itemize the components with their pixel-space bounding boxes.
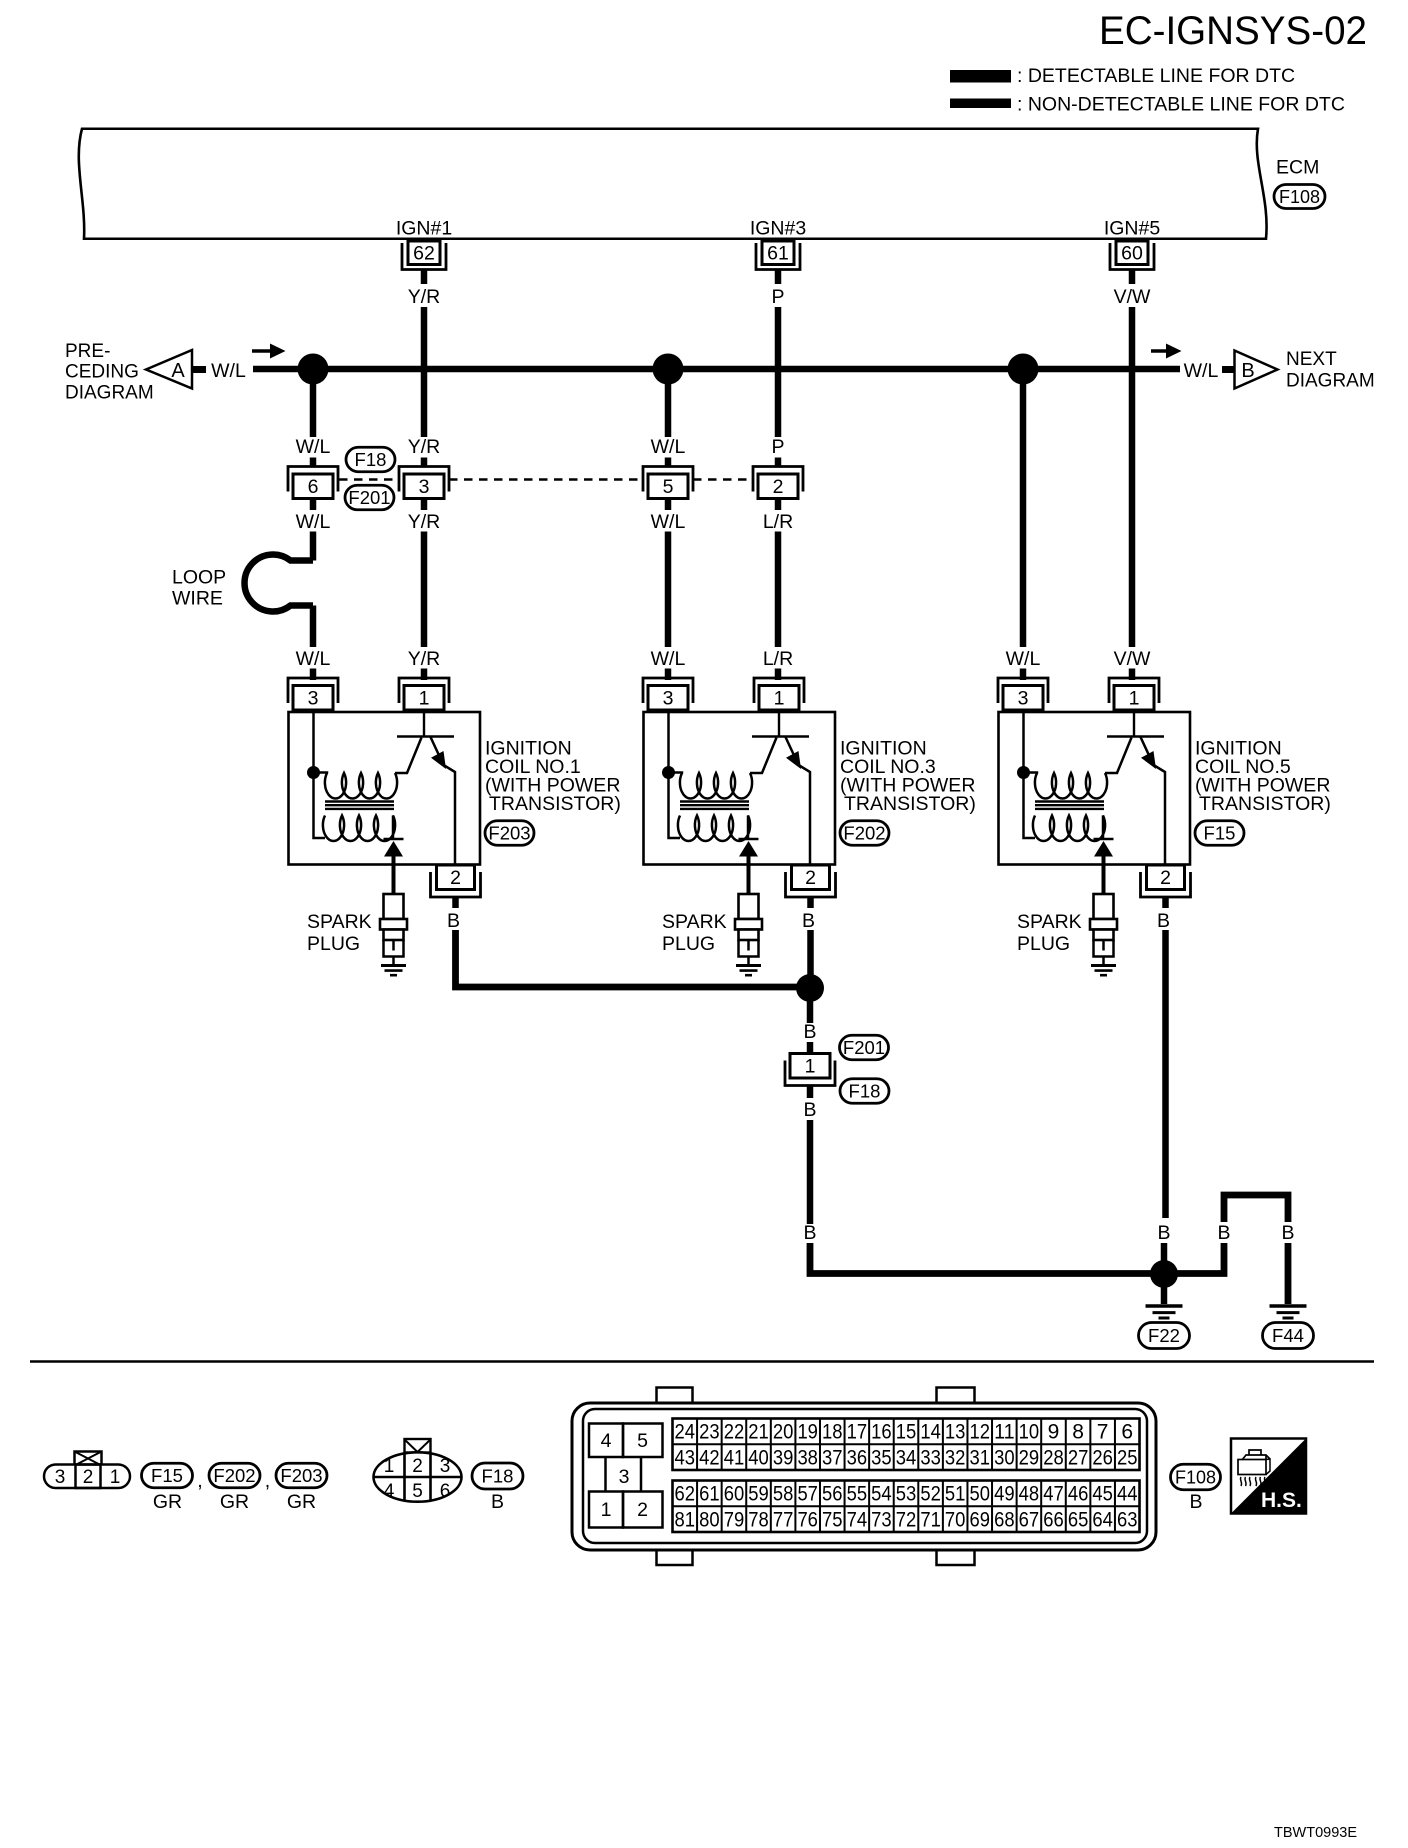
svg-text:1: 1 [419,688,430,710]
svg-text:72: 72 [896,1508,917,1531]
svg-text:PRE-: PRE- [65,341,110,362]
svg-text:PLUG: PLUG [1017,933,1070,955]
svg-text:6: 6 [308,476,319,498]
wire [775,669,782,681]
svg-text:46: 46 [1068,1483,1089,1506]
svg-text:W/L: W/L [211,360,246,382]
svg-text:31: 31 [970,1446,991,1469]
connector pin 5 (F18/F201) [643,467,693,499]
svg-text:47: 47 [1043,1483,1064,1506]
transistor Q1 emitter with arrow [431,737,456,865]
svg-text:57: 57 [797,1483,818,1506]
wire [1020,669,1027,681]
svg-text:64: 64 [1092,1508,1113,1531]
svg-text:LOOP: LOOP [172,567,226,589]
coil 5 secondary winding [1033,816,1105,842]
svg-text:58: 58 [773,1483,794,1506]
wire B coil3 down [807,930,814,988]
svg-text:F201: F201 [843,1037,885,1058]
connector label F18 [346,447,395,472]
svg-text:B: B [491,1491,504,1513]
svg-text:B: B [1217,1222,1230,1244]
svg-text:L/R: L/R [763,648,793,670]
wire stub pin 61 [775,270,782,285]
wire [310,669,317,681]
wire Y/R lower [421,532,428,648]
svg-text:GR: GR [220,1491,249,1513]
connector label F203 [485,821,534,846]
ECM connector left pin block [589,1424,663,1528]
transistor Q1 base [397,712,454,737]
H.S. badge [1231,1439,1306,1514]
svg-text:56: 56 [822,1483,843,1506]
connector label F15 [142,1463,193,1488]
svg-text:2: 2 [1160,867,1171,889]
transistor Q5 base [1107,712,1164,737]
svg-text:19: 19 [797,1421,818,1444]
svg-text:42: 42 [699,1446,720,1469]
svg-text:H.S.: H.S. [1261,1489,1302,1512]
connector label F15 [1195,821,1244,846]
spark plug (coil 3) [735,894,762,965]
svg-text:GR: GR [153,1491,182,1513]
svg-text:Y/R: Y/R [408,436,441,458]
svg-text:75: 75 [822,1508,843,1531]
svg-text:F15: F15 [1204,823,1236,844]
connector label F22 [1139,1323,1190,1349]
ignition coil no.3 pin 1 [754,678,804,710]
svg-text:B: B [1241,360,1254,382]
wire [310,458,317,468]
svg-text:6: 6 [440,1481,451,1502]
svg-text:48: 48 [1019,1483,1040,1506]
svg-text:80: 80 [699,1508,720,1531]
svg-text:TBWT0993E: TBWT0993E [1274,1825,1357,1841]
svg-text:28: 28 [1043,1446,1064,1469]
svg-text:39: 39 [773,1446,794,1469]
wire B loop to F44 ground [1164,1195,1288,1304]
svg-text:F15: F15 [151,1465,183,1486]
svg-text:37: 37 [822,1446,843,1469]
svg-text:B: B [447,910,460,932]
svg-text:5: 5 [663,476,674,498]
svg-text:17: 17 [847,1421,868,1444]
svg-text:70: 70 [945,1508,966,1531]
svg-text:SPARK: SPARK [662,911,727,933]
svg-text:2: 2 [83,1467,94,1488]
svg-text:F203: F203 [280,1465,322,1486]
svg-text:3: 3 [308,688,319,710]
svg-text:10: 10 [1019,1421,1040,1444]
wire B to connector [807,988,814,1023]
wire [665,669,672,681]
ignition coil no.5 pin 3 [998,678,1048,710]
svg-text:: DETECTABLE LINE FOR DTC: : DETECTABLE LINE FOR DTC [1017,65,1295,87]
connector pin 6 (F18/F201) [288,467,338,499]
svg-text:A: A [171,360,185,382]
svg-text:B: B [803,1099,816,1121]
svg-text:DIAGRAM: DIAGRAM [65,383,154,404]
coil 5 secondary diode [1094,839,1114,894]
wire [775,458,782,468]
6-pin loop-wire connector view [374,1439,462,1502]
spark plug text (coil 5) [1017,911,1082,955]
svg-text:PLUG: PLUG [662,933,715,955]
svg-text:77: 77 [773,1508,794,1531]
svg-text:W/L: W/L [296,648,331,670]
wire B stub coil 3 [807,897,814,909]
svg-text:3: 3 [619,1466,630,1488]
svg-text:65: 65 [1068,1508,1089,1531]
ignition coil no.1 text [485,738,621,816]
coil 5 primary winding [1024,773,1108,799]
svg-text:20: 20 [773,1421,794,1444]
wire Y/R upper [421,307,428,437]
svg-text:CEDING: CEDING [65,362,139,383]
ground (spark plug 5) [1091,966,1116,976]
spark plug text (coil 3) [662,911,727,955]
connector label F108 (ECM) [1274,185,1325,209]
svg-text:B: B [802,910,815,932]
connector pin 1 (F201/F18) [785,1054,835,1086]
coil 1 core [325,802,394,809]
svg-text:IGN#5: IGN#5 [1104,218,1161,240]
svg-text:69: 69 [970,1508,991,1531]
ground (spark plug 1) [381,966,406,976]
svg-text:W/L: W/L [651,436,686,458]
svg-text:ECM: ECM [1276,157,1319,179]
ignition coil no.1 pin 3 [288,678,338,710]
svg-text:50: 50 [970,1483,991,1506]
spark plug (coil 1) [380,894,407,965]
svg-text:F202: F202 [213,1465,255,1486]
wire [665,458,672,468]
coil 3 internal junction [662,766,675,779]
coil 1 secondary diode [384,839,404,894]
wire [421,669,428,681]
svg-text:32: 32 [945,1446,966,1469]
svg-text:26: 26 [1092,1446,1113,1469]
coil 3 primary-collector link [750,738,777,774]
svg-text:B: B [803,1222,816,1244]
ignition coil no.3 box [644,712,836,865]
connector label F18 [472,1463,523,1489]
wire [1129,669,1136,681]
svg-text:35: 35 [871,1446,892,1469]
svg-text:8: 8 [1072,1421,1084,1444]
svg-text:F108: F108 [1175,1468,1216,1488]
wire [775,499,782,511]
svg-text:B: B [803,1021,816,1043]
svg-text:P: P [771,286,784,308]
svg-text:NEXT: NEXT [1286,349,1337,370]
svg-text:V/W: V/W [1114,286,1151,308]
svg-text:3: 3 [663,688,674,710]
wire B coil5 down [1162,930,1169,1218]
svg-text:F18: F18 [355,449,387,470]
svg-text:61: 61 [699,1483,720,1506]
svg-text:18: 18 [822,1421,843,1444]
svg-text:62: 62 [413,243,435,265]
svg-text:: NON-DETECTABLE LINE FOR DTC: : NON-DETECTABLE LINE FOR DTC [1017,94,1345,116]
off-page arrow A [146,350,192,389]
svg-text:SPARK: SPARK [307,911,372,933]
svg-text:62: 62 [675,1483,696,1506]
connector pin 2 (F18/F201) [753,467,803,499]
svg-text:Y/R: Y/R [408,286,441,308]
svg-text:1: 1 [601,1499,612,1521]
coil 1 secondary winding [323,816,395,842]
wire stub [807,1086,814,1099]
svg-text:29: 29 [1019,1446,1040,1469]
svg-text:TRANSISTOR): TRANSISTOR) [844,793,976,815]
wire W/L coil1 upper [310,369,317,437]
svg-text:2: 2 [773,476,784,498]
wire P upper [775,307,782,437]
svg-text:B: B [1157,910,1170,932]
separator line [30,1360,1374,1363]
ignition coil no.3 text [840,738,976,816]
svg-text:6: 6 [1121,1421,1133,1444]
svg-text:B: B [1157,1222,1170,1244]
wire stub to B [1222,366,1235,373]
connector label F202 [209,1463,260,1488]
ground F44 [1270,1306,1307,1318]
transistor Q3 base [752,712,809,737]
svg-text:44: 44 [1117,1483,1138,1506]
coil 5 primary-collector link [1105,738,1132,774]
dashed link connector row [339,478,753,481]
svg-text:F203: F203 [488,823,530,844]
svg-text:7: 7 [1097,1421,1109,1444]
svg-text:14: 14 [920,1421,941,1444]
svg-text:53: 53 [896,1483,917,1506]
junction W/L bus / coil3 [653,354,684,385]
ignition coil no.1 pin 2 [431,865,481,897]
svg-text:16: 16 [871,1421,892,1444]
svg-text:TRANSISTOR): TRANSISTOR) [1199,793,1331,815]
loop wire text [172,567,226,610]
svg-text:W/L: W/L [651,511,686,533]
svg-text:34: 34 [896,1446,917,1469]
svg-text:9: 9 [1048,1421,1060,1444]
ignition coil no.3 pin 3 [643,678,693,710]
transistor Q5 emitter with arrow [1141,737,1166,865]
svg-text:63: 63 [1117,1508,1138,1531]
svg-text:W/L: W/L [296,511,331,533]
svg-text:21: 21 [748,1421,769,1444]
ignition coil no.1 box [289,712,481,865]
svg-text:F44: F44 [1272,1325,1304,1346]
wire [421,499,428,511]
connector label F202 [840,821,889,846]
svg-text:1: 1 [384,1456,395,1477]
svg-text:52: 52 [920,1483,941,1506]
svg-text:P: P [771,436,784,458]
svg-text:13: 13 [945,1421,966,1444]
3-pin coil connector view [44,1452,130,1489]
svg-text:PLUG: PLUG [307,933,360,955]
svg-text:,: , [197,1470,202,1492]
svg-text:2: 2 [805,867,816,889]
svg-text:5: 5 [412,1481,423,1502]
svg-text:F202: F202 [843,823,885,844]
connector pin 3 (F18/F201) [399,467,449,499]
ECM box [79,129,1267,239]
off-page arrow B [1235,351,1278,389]
connector label F201 [840,1035,889,1060]
ground F22 [1146,1306,1183,1318]
svg-text:3: 3 [55,1467,66,1488]
ECM pin 60 [1110,241,1154,270]
junction B at ground [1150,1260,1178,1288]
transistor Q3 emitter with arrow [786,737,811,865]
svg-text:73: 73 [871,1508,892,1531]
svg-text:27: 27 [1068,1446,1089,1469]
ignition coil no.5 pin 1 [1109,678,1159,710]
svg-text:F18: F18 [482,1466,514,1487]
svg-text:45: 45 [1092,1483,1113,1506]
svg-text:15: 15 [896,1421,917,1444]
svg-text:41: 41 [724,1446,745,1469]
flow arrow right [1151,344,1182,359]
connector label F44 [1263,1323,1314,1349]
wire B down [807,1120,814,1224]
svg-text:2: 2 [450,867,461,889]
svg-text:54: 54 [871,1483,892,1506]
svg-text:78: 78 [748,1508,769,1531]
svg-text:F201: F201 [348,487,390,508]
spark plug (coil 5) [1090,894,1117,965]
svg-text:36: 36 [847,1446,868,1469]
svg-text:IGN#1: IGN#1 [396,218,452,240]
ECM connector pin grid upper [673,1419,1140,1471]
spark plug text (coil 1) [307,911,372,955]
svg-text:3: 3 [419,476,430,498]
svg-text:79: 79 [724,1508,745,1531]
flow arrow left [252,344,286,359]
connector label F201 [345,485,394,510]
coil 5 internal junction [1017,766,1030,779]
ignition coil no.5 pin 2 [1141,865,1191,897]
svg-text:60: 60 [724,1483,745,1506]
wire to F22 ground [1161,1286,1168,1304]
wire B stub coil 1 [452,897,459,909]
svg-text:F22: F22 [1148,1325,1180,1346]
svg-text:IGN#3: IGN#3 [750,218,806,240]
ECM connector pin grid lower [673,1481,1140,1533]
svg-text:F108: F108 [1279,187,1320,207]
junction W/L bus / coil1 [298,354,329,385]
coil 3 primary feed wire [669,712,681,838]
svg-text:22: 22 [724,1421,745,1444]
svg-text:4: 4 [384,1481,395,1502]
svg-text:23: 23 [699,1421,720,1444]
wire V/W [1129,307,1136,647]
svg-text:81: 81 [675,1508,696,1531]
svg-text:24: 24 [675,1421,696,1444]
svg-text:Y/R: Y/R [408,648,441,670]
svg-text:74: 74 [847,1508,868,1531]
wire stub from A [192,366,206,373]
svg-text:76: 76 [797,1508,818,1531]
svg-text:67: 67 [1019,1508,1040,1531]
coil 5 core [1035,802,1104,809]
coil 3 secondary diode [739,839,759,894]
svg-text:43: 43 [675,1446,696,1469]
svg-text:2: 2 [412,1456,423,1477]
coil 1 internal junction [307,766,320,779]
ignition coil no.5 text [1195,738,1331,816]
wire W/L below loop [310,606,317,648]
legend detectable line bar [950,70,1011,83]
svg-text:1: 1 [1129,688,1140,710]
svg-text:1: 1 [110,1467,121,1488]
svg-text:38: 38 [797,1446,818,1469]
svg-text:61: 61 [767,243,789,265]
wire stub pin 62 [421,270,428,285]
svg-text:EC-IGNSYS-02: EC-IGNSYS-02 [1099,9,1367,53]
ECM pin 61 [756,241,800,270]
coil 3 primary winding [669,773,753,799]
svg-text:30: 30 [994,1446,1015,1469]
svg-text:F18: F18 [849,1081,881,1102]
svg-text:W/L: W/L [1006,648,1041,670]
connector label F18 [840,1079,889,1104]
wire B coil1 to junction [456,930,811,987]
svg-text:B: B [1281,1222,1294,1244]
svg-text:4: 4 [601,1430,612,1452]
svg-text:55: 55 [847,1483,868,1506]
svg-text:5: 5 [637,1430,648,1452]
svg-text:12: 12 [970,1421,991,1444]
ECM connector housing [572,1388,1156,1566]
wire W/L coil3 upper [665,369,672,437]
svg-text:GR: GR [287,1491,316,1513]
wire L/R lower [775,532,782,648]
coil 3 core [680,802,749,809]
junction W/L bus / coil5 [1008,354,1039,385]
wire [1161,1243,1168,1262]
coil 5 primary feed wire [1024,712,1036,838]
svg-text:W/L: W/L [296,436,331,458]
svg-text:1: 1 [805,1056,816,1078]
ignition coil no.3 pin 2 [786,865,836,897]
svg-text:11: 11 [994,1421,1015,1444]
coil 1 primary winding [314,773,398,799]
svg-text:V/W: V/W [1114,648,1151,670]
wire [310,499,317,511]
svg-text:3: 3 [1018,688,1029,710]
wire [665,499,672,511]
svg-text:33: 33 [920,1446,941,1469]
svg-text:60: 60 [1121,243,1143,265]
svg-text:71: 71 [920,1508,941,1531]
ground (spark plug 3) [736,966,761,976]
preceding diagram text [65,341,154,404]
svg-text:B: B [1189,1491,1202,1513]
svg-text:1: 1 [774,688,785,710]
wire stub pin 60 [1129,270,1136,285]
svg-text:40: 40 [748,1446,769,1469]
svg-text:25: 25 [1117,1446,1138,1469]
svg-text:SPARK: SPARK [1017,911,1082,933]
ECM pin 62 [402,241,446,270]
svg-text:51: 51 [945,1483,966,1506]
wire B stub coil 5 [1162,897,1169,909]
svg-text:66: 66 [1043,1508,1064,1531]
ignition coil no.5 box [999,712,1191,865]
